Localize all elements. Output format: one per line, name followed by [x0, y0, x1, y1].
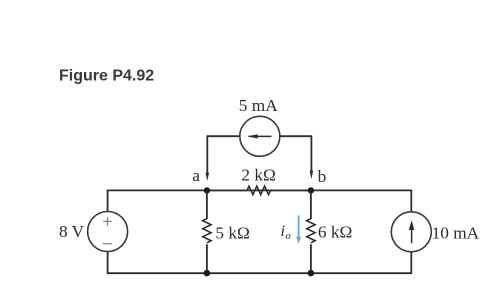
svg-text:5 kΩ: 5 kΩ	[215, 224, 249, 243]
wire 5mA loop left vertical (down into node a)	[206, 136, 208, 173]
junction node dot b	[308, 187, 314, 193]
svg-text:a: a	[192, 166, 200, 185]
voltage source V1 8 V	[88, 212, 128, 252]
junction node dot a	[204, 187, 210, 193]
current source I2 10 mA (circle with up arrow)	[391, 212, 431, 252]
wire node b to 6k resistor top	[310, 190, 312, 218]
junction node dot bottom-right (6k bottom)	[308, 270, 315, 277]
svg-text:Figure P4.92: Figure P4.92	[59, 68, 154, 85]
svg-text:b: b	[318, 167, 327, 186]
wire right vertical below 10mA source	[410, 252, 412, 273]
current arrow i_o (teal, down)	[298, 216, 300, 239]
wire 5mA loop top-left horizontal	[207, 135, 239, 137]
resistor R 6k ohm zigzag (vertical, node b column)	[307, 219, 315, 243]
wire right vertical above 10mA source	[410, 190, 412, 212]
svg-text:i: i	[281, 223, 285, 240]
wire 6k resistor bottom to bottom rail	[310, 245, 312, 273]
current source I1 5 mA (circle with left arrow)	[240, 116, 280, 156]
wire 5mA loop top-right horizontal	[280, 135, 312, 137]
wire left vertical below 8V source	[107, 251, 109, 273]
svg-text:6 kΩ: 6 kΩ	[318, 223, 352, 242]
junction node dot bottom-left (5k bottom)	[204, 270, 211, 277]
svg-text:2 kΩ: 2 kΩ	[241, 166, 275, 185]
arrowhead into node b	[310, 171, 314, 179]
resistor R 2k ohm zigzag (horizontal, between a and b)	[207, 186, 311, 194]
wire 5mA loop right vertical (down into node b)	[310, 136, 312, 171]
arrowhead into node a	[206, 173, 210, 181]
wire node a to 5k resistor top	[206, 190, 208, 218]
svg-text:8 V: 8 V	[59, 222, 85, 241]
wire top horizontal (left corner to right corner through nodes a,b)	[108, 189, 412, 191]
wire bottom horizontal	[108, 272, 412, 274]
resistor R 5k ohm zigzag (vertical, node a column)	[203, 219, 211, 243]
svg-text:5 mA: 5 mA	[239, 96, 278, 115]
wire 5k resistor bottom to bottom rail	[206, 245, 208, 273]
svg-text:o: o	[286, 231, 291, 242]
wire left vertical above 8V source	[107, 190, 109, 211]
svg-text:10 mA: 10 mA	[432, 224, 480, 243]
